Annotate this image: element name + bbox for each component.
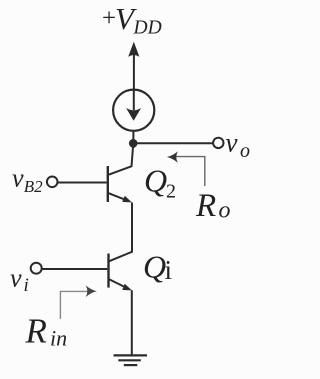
svg-text:R: R xyxy=(195,188,216,224)
svg-text:DD: DD xyxy=(133,18,162,39)
svg-text:R: R xyxy=(25,312,47,351)
svg-text:+: + xyxy=(102,5,116,32)
svg-text:o: o xyxy=(219,198,231,224)
svg-text:o: o xyxy=(240,140,250,162)
svg-text:v: v xyxy=(10,263,22,292)
svg-text:Q: Q xyxy=(143,249,166,285)
svg-text:B2: B2 xyxy=(24,177,43,196)
svg-text:i: i xyxy=(24,275,29,296)
svg-text:v: v xyxy=(12,163,24,192)
svg-text:v: v xyxy=(226,128,238,158)
svg-text:Q: Q xyxy=(144,163,167,199)
svg-text:2: 2 xyxy=(166,181,176,203)
svg-text:i: i xyxy=(165,255,173,285)
svg-text:in: in xyxy=(50,326,67,351)
